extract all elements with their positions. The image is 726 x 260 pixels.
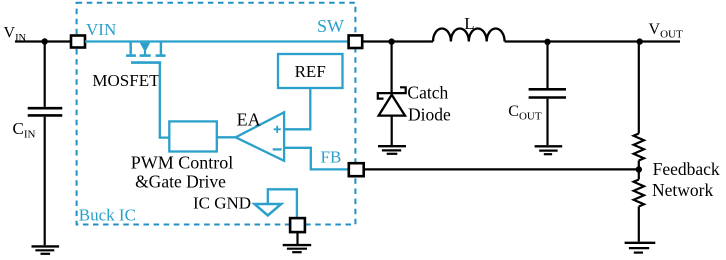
svg-text:IC GND: IC GND	[193, 194, 251, 213]
capacitor C_OUT	[529, 89, 566, 97]
PWM Control block	[169, 121, 217, 151]
wire FB line	[364, 168, 639, 170]
svg-text:Diode: Diode	[408, 105, 451, 125]
wire C_IN top lead	[44, 42, 46, 107]
svg-text:REF: REF	[295, 62, 326, 81]
svg-text:FB: FB	[321, 148, 342, 167]
transistor MOSFET	[126, 42, 165, 63]
svg-text:L: L	[464, 14, 474, 33]
svg-text:VIN: VIN	[86, 20, 116, 39]
wire inductor to output	[505, 40, 680, 42]
inductor L	[433, 28, 505, 41]
wire EA minus input to FB	[284, 148, 349, 170]
wire C_OUT top lead	[546, 42, 548, 89]
IC GND triangle symbol	[255, 204, 282, 216]
terminal VIN	[71, 36, 85, 48]
EA plus input sign	[274, 126, 281, 133]
wire feedback top lead	[638, 42, 640, 134]
wire feedback bottom lead	[638, 207, 640, 242]
ground IC	[283, 245, 312, 252]
wire catch diode bottom lead	[391, 116, 393, 145]
op-amp EA	[236, 112, 285, 161]
wire EA output to PWM	[217, 136, 236, 138]
EA minus input sign	[273, 148, 282, 150]
svg-text:Network: Network	[652, 180, 713, 200]
ground catch diode	[378, 146, 406, 154]
wire IC GND to terminal	[268, 189, 297, 218]
diode catch (Schottky)	[378, 87, 406, 115]
capacitor C_IN	[28, 108, 63, 115]
node input junction	[42, 38, 48, 44]
svg-text:Buck IC: Buck IC	[79, 206, 136, 225]
block REF	[278, 54, 343, 88]
ground C_IN	[32, 246, 60, 253]
wire input rail	[15, 40, 71, 42]
svg-text:MOSFET: MOSFET	[92, 71, 160, 90]
terminal SW	[349, 35, 363, 48]
svg-text:PWM Control: PWM Control	[131, 152, 234, 172]
ground C_OUT	[535, 146, 563, 154]
wire internal top rail (cyan)	[85, 40, 349, 42]
svg-text:Catch: Catch	[407, 83, 448, 103]
node FB divider junction	[636, 166, 642, 172]
Buck IC dashed boundary box	[77, 3, 356, 225]
wire GND terminal lead	[296, 232, 298, 244]
svg-text:Feedback: Feedback	[653, 159, 720, 179]
resistor R2 feedback lower	[634, 180, 644, 207]
wire C_IN bottom lead	[44, 117, 46, 246]
wire between resistors	[638, 161, 640, 180]
wire SW to inductor	[362, 40, 433, 42]
wire catch diode lead	[391, 42, 393, 93]
node feedback junction top	[637, 38, 643, 44]
wire REF to EA plus input	[284, 88, 310, 129]
svg-text:EA: EA	[237, 109, 261, 129]
node SW junction	[388, 38, 394, 44]
svg-text:SW: SW	[317, 16, 344, 36]
ground feedback	[625, 243, 656, 253]
node C_OUT junction	[544, 39, 550, 45]
wire C_OUT bottom lead	[546, 99, 548, 145]
svg-text:&Gate Drive: &Gate Drive	[135, 171, 226, 191]
terminal FB	[349, 163, 364, 176]
resistor R1 feedback upper	[634, 134, 644, 161]
terminal GND	[290, 218, 305, 232]
wire gate drive line	[160, 63, 170, 138]
